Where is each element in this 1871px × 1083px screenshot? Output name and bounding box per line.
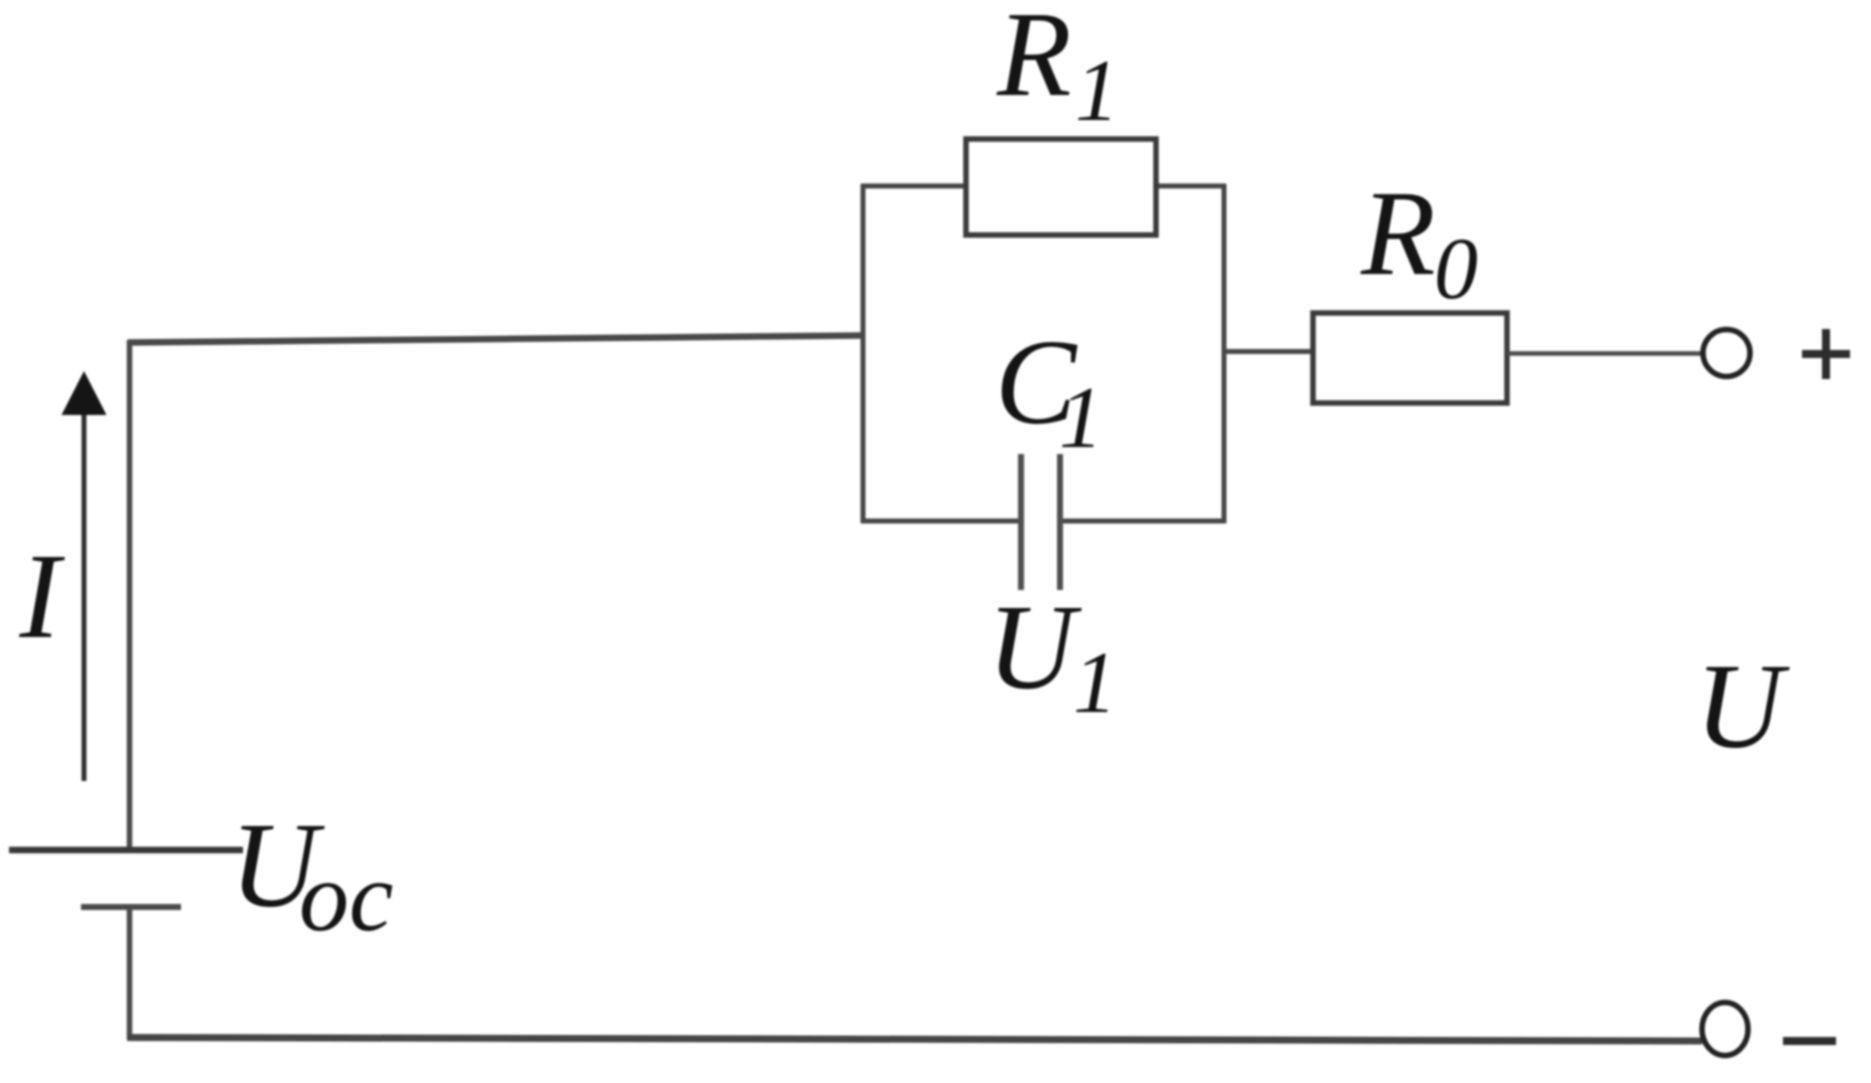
svg-text:1: 1 [1073,635,1117,732]
svg-text:R: R [996,0,1072,122]
svg-text:1: 1 [1075,43,1119,140]
wire box top-right segment [1154,184,1226,189]
label - sign [1783,1037,1836,1045]
wire bottom horizontal to negative terminal [127,1038,1702,1042]
battery Uoc top plate [9,847,243,854]
svg-text:1: 1 [1059,370,1103,467]
svg-text:I: I [19,529,66,664]
capacitor C1 left plate [1018,454,1024,590]
node: RC box right edge [1222,184,1227,523]
svg-text:U: U [1695,639,1790,774]
wire box to R0 [1224,349,1315,354]
svg-text:0: 0 [1434,221,1478,318]
current arrow I shaft [82,412,87,781]
wire R0 to positive terminal [1507,351,1702,356]
terminal - circle [1702,1003,1748,1056]
wire box top-left segment [861,184,968,189]
svg-text:oc: oc [299,841,393,952]
label + sign [1802,350,1850,358]
wire top horizontal from battery branch to RC box [128,336,863,343]
terminal + circle [1703,330,1750,377]
capacitor C1 right plate [1057,454,1063,590]
svg-text:U: U [987,580,1082,715]
svg-text:R: R [1360,166,1436,301]
wire box bottom-left segment [861,519,1019,524]
resistor R1 [966,139,1156,235]
current arrow I head [62,371,107,415]
node: RC box left edge [861,184,866,523]
battery Uoc bottom plate [81,904,181,910]
resistor R0 [1313,313,1507,403]
wire left vertical down to battery [127,340,133,850]
wire box bottom-right segment [1062,519,1226,524]
wire below battery [127,907,133,1039]
